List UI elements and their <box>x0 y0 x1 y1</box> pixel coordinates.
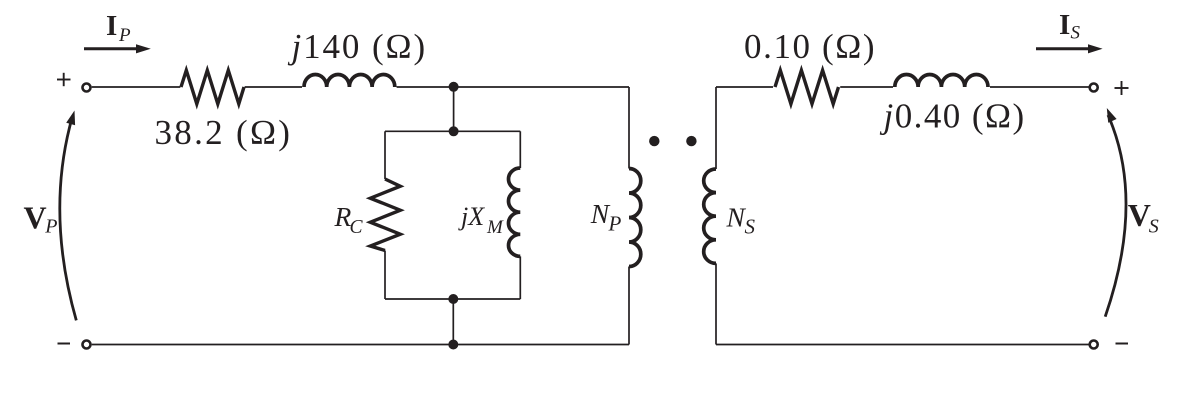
wire bottom-right rail <box>716 344 1090 346</box>
transformer secondary winding NS <box>704 169 716 263</box>
svg-text:S: S <box>745 215 756 239</box>
inductor j0.40 ohm <box>895 74 988 87</box>
minus sign bottom-right <box>1116 343 1129 345</box>
plus sign top-left <box>57 73 71 86</box>
svg-text:j140 (Ω): j140 (Ω) <box>288 27 428 66</box>
inductor jXM (vertical) <box>509 168 521 256</box>
polarity dot secondary <box>686 136 696 146</box>
svg-text:S: S <box>1149 216 1159 238</box>
resistor RC (vertical) <box>370 179 400 251</box>
node A junction dot <box>449 82 459 92</box>
current arrow IS <box>1036 44 1103 53</box>
plus sign top-right <box>1115 81 1129 95</box>
svg-text:I: I <box>106 10 117 42</box>
svg-text:I: I <box>1059 9 1070 41</box>
svg-text:0.10 (Ω): 0.10 (Ω) <box>744 27 876 66</box>
resistor 38.2 ohm <box>181 70 244 104</box>
wire shunt box left edge lower <box>384 251 386 300</box>
wire node A down to node B <box>453 87 455 131</box>
terminal bottom-right <box>1090 341 1098 349</box>
svg-text:M: M <box>486 217 504 238</box>
wire node A to NP top corner <box>454 86 629 88</box>
polarity dot primary <box>649 136 659 146</box>
voltage arrow VS <box>1105 108 1126 317</box>
svg-text:C: C <box>350 217 364 238</box>
wire NS vertical upper <box>715 87 717 169</box>
svg-text:N: N <box>726 201 747 232</box>
svg-text:P: P <box>608 211 622 235</box>
terminal top-left <box>83 84 91 92</box>
node C junction dot <box>448 294 458 304</box>
wire right inductor to right top terminal <box>990 86 1090 88</box>
svg-text:P: P <box>118 25 131 46</box>
minus sign bottom-left <box>58 343 71 345</box>
svg-text:V: V <box>24 199 47 235</box>
wire NS top to right resistor <box>716 86 773 88</box>
node D junction dot <box>448 340 458 350</box>
terminal bottom-left <box>83 341 91 349</box>
wire shunt box top edge <box>385 130 520 132</box>
svg-text:S: S <box>1071 22 1081 43</box>
inductor j140 ohm <box>304 74 395 87</box>
svg-text:V: V <box>1128 197 1151 233</box>
wire bottom-left rail <box>92 344 629 346</box>
wire inductor to node A <box>397 86 454 88</box>
transformer primary winding NP <box>629 169 641 267</box>
wire node C down to node D <box>452 299 454 345</box>
wire shunt box bottom edge <box>385 298 520 300</box>
wire resistor to inductor <box>245 86 302 88</box>
svg-text:jX: jX <box>458 202 485 231</box>
voltage arrow VP <box>60 111 77 321</box>
svg-text:P: P <box>44 216 57 238</box>
terminal top-right <box>1090 84 1098 92</box>
wire shunt box right edge lower <box>519 256 521 299</box>
node B junction dot <box>449 126 459 136</box>
wire top-left (terminal to resistor) <box>92 86 181 88</box>
current arrow IP <box>84 44 151 53</box>
wire right resistor to right inductor <box>840 86 893 88</box>
wire NS vertical lower <box>715 263 717 344</box>
wire NP vertical lower <box>628 267 630 345</box>
svg-text:38.2 (Ω): 38.2 (Ω) <box>155 113 293 152</box>
wire shunt box left edge upper <box>384 131 386 179</box>
svg-text:j0.40 (Ω): j0.40 (Ω) <box>880 97 1026 136</box>
resistor 0.10 ohm <box>775 70 839 104</box>
wire NP vertical upper <box>628 87 630 169</box>
wire shunt box right edge upper <box>519 131 521 168</box>
